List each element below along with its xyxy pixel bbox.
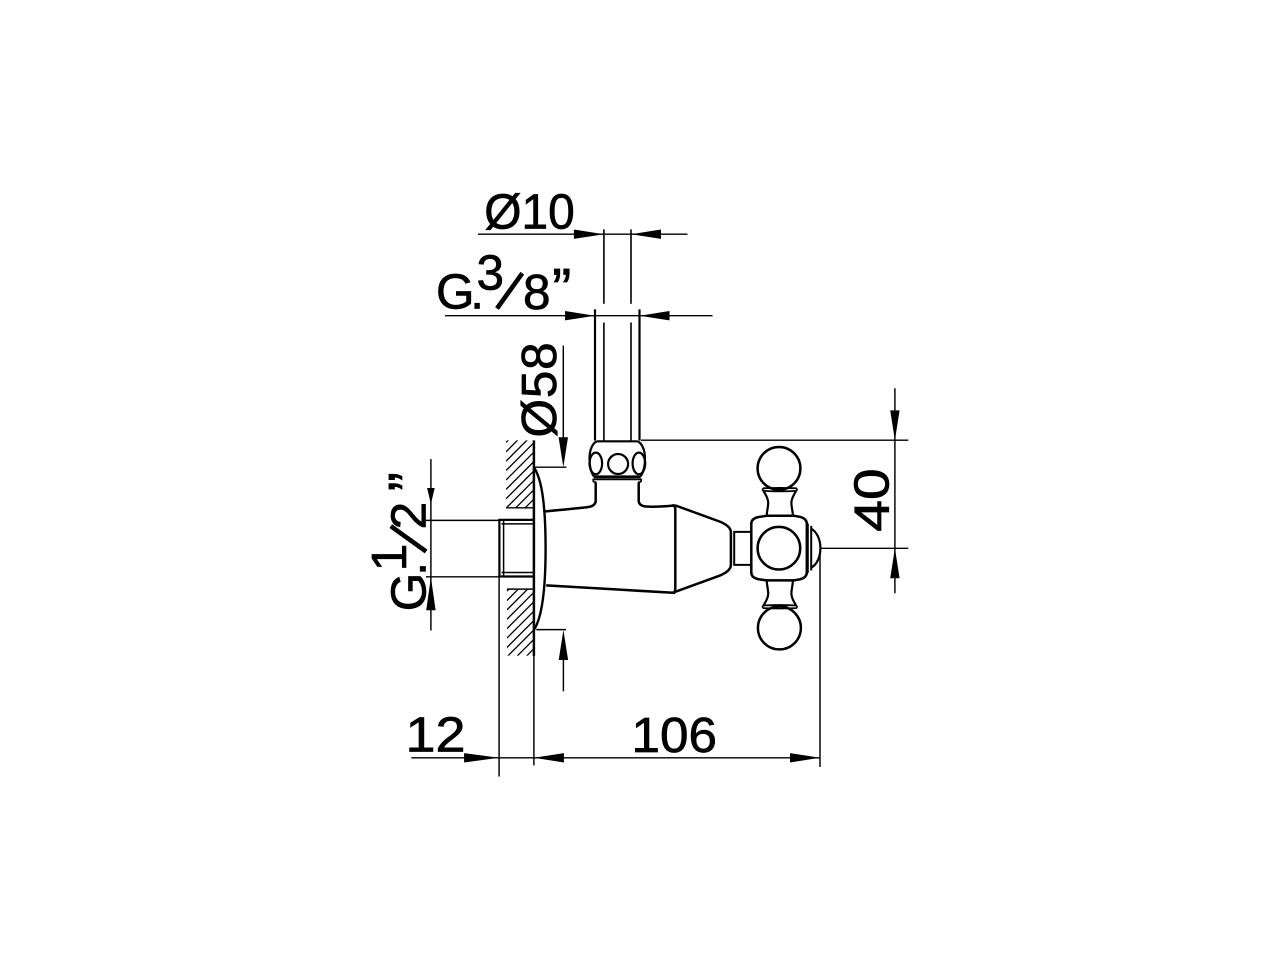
- dim 40 ext line bottom: [822, 547, 909, 549]
- ext line wall face: [533, 656, 535, 765]
- bottom neck left: [764, 581, 769, 605]
- svg-text:2: 2: [382, 501, 437, 529]
- nut bottom thick line: [594, 475, 641, 478]
- dim G3/8 arrows: [565, 311, 595, 320]
- nipple chamfer line: [503, 520, 505, 577]
- svg-text:40: 40: [845, 468, 900, 532]
- handle bottom ball: [758, 606, 801, 649]
- pipe inner line right: [630, 229, 632, 303]
- hub top ring line: [767, 515, 794, 517]
- bottom neck right: [791, 581, 796, 605]
- bottom ball collar: [763, 605, 797, 608]
- handle hub outline: [751, 516, 807, 581]
- stem sleeve: [734, 532, 751, 565]
- svg-text:G: G: [382, 572, 437, 611]
- flange (escutcheon): [534, 467, 546, 629]
- nut lower ring: [593, 479, 641, 482]
- bonnet bell: [675, 505, 731, 591]
- handle top ball: [758, 447, 801, 490]
- svg-text:Ø58: Ø58: [512, 342, 567, 438]
- ext line nipple end: [498, 578, 500, 777]
- handle cap seam lines: [807, 524, 809, 573]
- top ball collar: [763, 488, 797, 491]
- dim Ø10 arrows: [574, 230, 604, 239]
- nut knurl left ellipse: [590, 453, 603, 475]
- pipe outer line right: [638, 309, 640, 440]
- label G.1/2" (rotated): [362, 472, 442, 611]
- nut knurl middle circle: [608, 454, 628, 474]
- dim 40 vertical line: [894, 388, 896, 593]
- ext line handle tip: [819, 554, 821, 768]
- body-bonnet joint line: [672, 505, 675, 593]
- svg-text:”: ”: [377, 472, 442, 491]
- top neck right: [791, 491, 796, 515]
- svg-text:3: 3: [477, 245, 505, 300]
- dim Ø58 leader bottom: [536, 629, 566, 631]
- hub circle: [758, 527, 801, 570]
- dim 40 ext line top (from nut): [641, 439, 908, 441]
- hub bottom ring line: [767, 579, 794, 581]
- svg-text:Ø10: Ø10: [484, 184, 575, 239]
- valve body top edge left: [546, 482, 596, 511]
- pipe inner line left: [603, 229, 605, 303]
- handle cap dome: [811, 529, 820, 568]
- svg-text:106: 106: [632, 708, 718, 763]
- dim 12/106 baseline: [411, 757, 820, 759]
- top neck left: [764, 491, 769, 515]
- valve body bottom edge: [546, 585, 675, 593]
- svg-text:8: 8: [523, 265, 551, 320]
- nut left side: [589, 441, 596, 476]
- dim Ø58 leader top: [562, 346, 564, 440]
- G.1/2 nipple: [499, 520, 533, 577]
- svg-text:12: 12: [406, 707, 466, 762]
- dim G3/8 line: [445, 315, 713, 317]
- dim G1/2 ext lines: [426, 519, 499, 521]
- nipple thread line bottom: [502, 572, 534, 574]
- valve body top edge right: [639, 482, 676, 506]
- wall face line: [533, 440, 536, 656]
- wall lower edge line: [507, 588, 534, 590]
- dim Ø10 line: [478, 233, 688, 235]
- svg-text:”: ”: [552, 257, 571, 322]
- nut right side: [638, 441, 646, 476]
- svg-text:1: 1: [362, 543, 417, 571]
- dim G1/2 vertical line: [430, 459, 432, 630]
- wall hole top edge: [506, 507, 534, 509]
- nut knurl right ellipse: [633, 453, 646, 475]
- compression nut top edge: [597, 440, 638, 442]
- nipple thread line top: [502, 523, 534, 525]
- pipe outer line left: [594, 309, 596, 440]
